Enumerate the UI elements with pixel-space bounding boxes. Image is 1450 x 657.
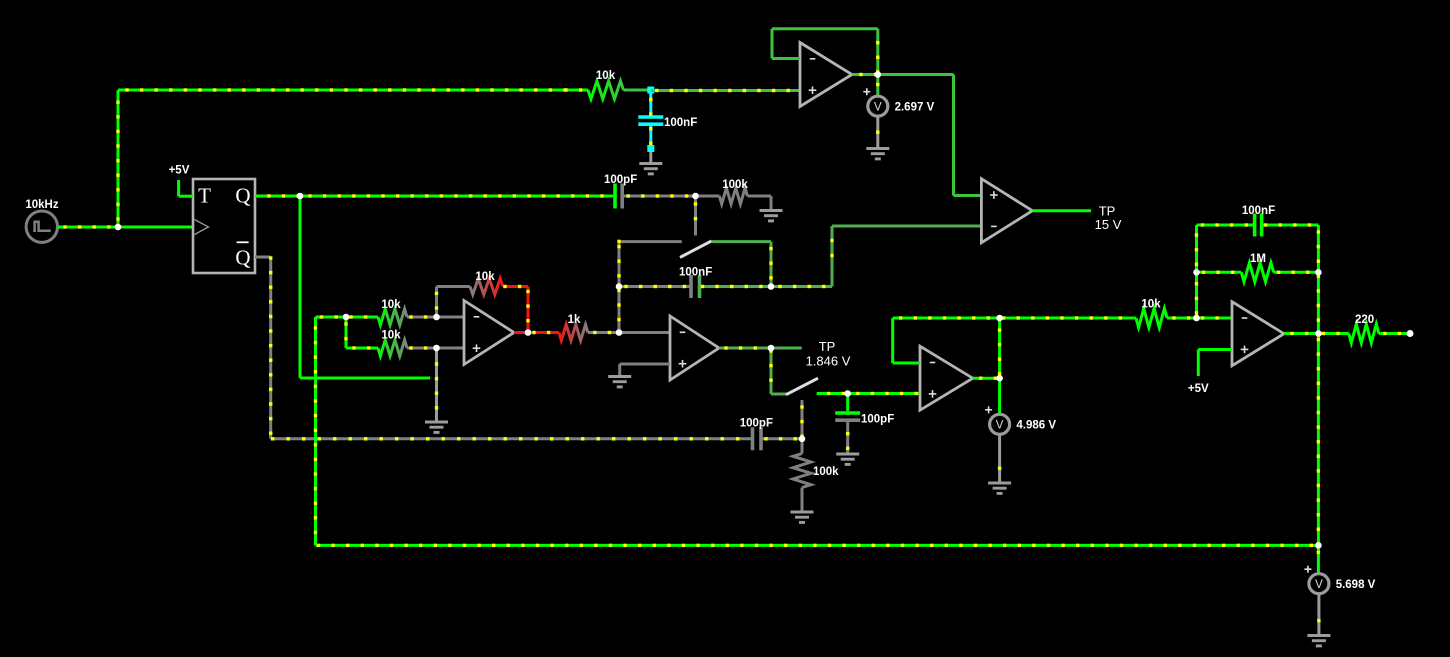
svg-text:10k: 10k bbox=[1141, 299, 1161, 311]
svg-text:10k: 10k bbox=[596, 70, 616, 82]
svg-text:10k: 10k bbox=[381, 299, 401, 311]
svg-text:5.698 V: 5.698 V bbox=[1336, 579, 1376, 591]
svg-text:100k: 100k bbox=[813, 466, 839, 478]
svg-text:Q: Q bbox=[235, 184, 250, 208]
svg-text:+5V: +5V bbox=[1188, 383, 1209, 395]
svg-text:1.846 V: 1.846 V bbox=[806, 354, 851, 369]
svg-text:100nF: 100nF bbox=[1242, 205, 1275, 217]
svg-text:V: V bbox=[874, 101, 882, 113]
svg-text:100pF: 100pF bbox=[740, 418, 773, 430]
svg-text:10kHz: 10kHz bbox=[25, 199, 58, 211]
svg-text:100pF: 100pF bbox=[861, 414, 894, 426]
svg-text:+5V: +5V bbox=[169, 165, 190, 177]
svg-text:V: V bbox=[1315, 579, 1323, 591]
svg-text:Q: Q bbox=[235, 246, 250, 270]
svg-text:10k: 10k bbox=[381, 330, 401, 342]
svg-text:100nF: 100nF bbox=[664, 117, 697, 129]
svg-text:220: 220 bbox=[1355, 314, 1374, 326]
svg-text:T: T bbox=[198, 184, 211, 208]
svg-text:1M: 1M bbox=[1250, 253, 1266, 265]
svg-text:2.697 V: 2.697 V bbox=[895, 101, 935, 113]
svg-text:TP: TP bbox=[819, 339, 836, 354]
svg-text:1k: 1k bbox=[568, 314, 581, 326]
svg-text:100nF: 100nF bbox=[679, 267, 712, 279]
svg-text:4.986 V: 4.986 V bbox=[1016, 420, 1056, 432]
svg-text:15 V: 15 V bbox=[1095, 217, 1122, 232]
svg-text:V: V bbox=[996, 420, 1004, 432]
svg-text:10k: 10k bbox=[475, 271, 495, 283]
svg-text:100k: 100k bbox=[722, 179, 748, 191]
svg-text:100pF: 100pF bbox=[604, 174, 637, 186]
